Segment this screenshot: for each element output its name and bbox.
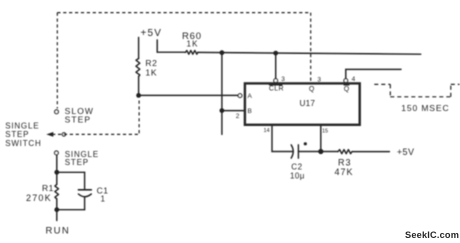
svg-text:U17: U17 xyxy=(300,99,316,108)
svg-text:47K: 47K xyxy=(335,167,354,177)
svg-text:150 MSEC: 150 MSEC xyxy=(401,103,449,113)
svg-text:C2: C2 xyxy=(291,163,302,172)
svg-text:4: 4 xyxy=(352,76,356,83)
svg-text:270K: 270K xyxy=(26,193,52,203)
svg-text:Q: Q xyxy=(344,86,350,93)
svg-text:10μ: 10μ xyxy=(290,171,305,180)
svg-text:SWITCH: SWITCH xyxy=(5,139,41,148)
svg-text:1K: 1K xyxy=(145,68,157,78)
svg-text:A: A xyxy=(248,93,253,100)
svg-text:+5V: +5V xyxy=(141,28,163,39)
svg-text:3: 3 xyxy=(317,77,321,84)
svg-text:R1: R1 xyxy=(42,183,54,193)
svg-text:R2: R2 xyxy=(145,58,157,68)
svg-text:CLR: CLR xyxy=(269,85,284,92)
svg-text:14: 14 xyxy=(264,128,270,134)
svg-text:+5V: +5V xyxy=(397,147,414,157)
svg-text:RUN: RUN xyxy=(46,225,70,236)
svg-text:SeekIC.com: SeekIC.com xyxy=(405,230,459,240)
svg-text:STEP: STEP xyxy=(65,115,92,125)
svg-text:SINGLE: SINGLE xyxy=(5,121,39,130)
svg-text:1: 1 xyxy=(101,195,106,204)
svg-text:Q: Q xyxy=(309,86,315,93)
svg-text:2: 2 xyxy=(236,113,240,120)
svg-text:STEP: STEP xyxy=(5,130,29,139)
svg-text:STEP: STEP xyxy=(65,158,89,167)
svg-text:15: 15 xyxy=(322,128,328,134)
svg-text:1K: 1K xyxy=(187,40,199,49)
svg-text:B: B xyxy=(248,108,252,115)
svg-text:3: 3 xyxy=(281,76,285,83)
svg-text:R3: R3 xyxy=(338,157,352,167)
